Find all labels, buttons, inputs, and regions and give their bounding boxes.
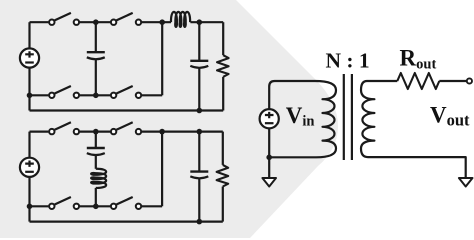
ground right: [459, 178, 473, 187]
wire source V1 top lead: [28, 22, 30, 48]
wire secondary top to Rout: [367, 80, 397, 82]
wire middle vertical (top circuit): [161, 22, 163, 95]
voltage source Vin: [260, 109, 279, 128]
node source V1 bottom: [27, 93, 33, 99]
svg-text:N : 1: N : 1: [326, 49, 370, 73]
switch S5: [49, 122, 79, 134]
node bottom rail C4: [197, 219, 203, 225]
node source V2 bottom: [27, 204, 33, 210]
voltage source V1: [20, 48, 39, 67]
wire middle vertical (bottom circuit): [161, 132, 163, 207]
wire middle rail segments (bottom circuit): [30, 205, 163, 207]
node bottom rail C2: [197, 108, 203, 114]
switch S6: [111, 122, 141, 134]
switch S4: [111, 86, 141, 98]
ground left: [262, 178, 276, 187]
wire Rout to terminal: [439, 80, 467, 82]
capacitor C1: [87, 22, 105, 95]
transformer T1 primary winding: [315, 81, 336, 157]
switch S8: [111, 197, 141, 209]
wire Vin top lead: [268, 87, 270, 109]
node middle rail C1: [93, 93, 99, 99]
wire Vin bottom lead to ground: [268, 128, 270, 178]
switch S2: [111, 13, 141, 25]
resistor Rout: [397, 73, 439, 89]
transformer T1 core: [344, 74, 352, 160]
wire bottom rail (top circuit): [30, 109, 224, 111]
wire source V2 top lead: [28, 132, 30, 158]
node middle rail L2: [93, 204, 99, 210]
node top rail C: [197, 19, 203, 25]
switch S3: [49, 86, 79, 98]
wire top rail segments (bottom circuit): [30, 131, 223, 133]
node top rail E: [159, 129, 165, 135]
voltage source V2: [20, 158, 39, 177]
switch S1: [49, 13, 79, 25]
svg-text:Rout: Rout: [400, 45, 437, 72]
node Vin bottom junction: [266, 155, 272, 161]
terminal Vout: [467, 78, 472, 83]
inductor L1: [171, 12, 190, 27]
wire source V2 bottom lead down left side: [28, 177, 30, 222]
node top rail F: [197, 129, 203, 135]
node top rail B: [159, 19, 165, 25]
wire primary bottom: [269, 156, 316, 158]
wire source V1 bottom lead down left side: [28, 68, 30, 111]
wire top rail segments (top circuit): [30, 21, 224, 23]
node top rail D: [93, 129, 99, 135]
transformer T1 secondary winding: [361, 81, 374, 157]
wire secondary bottom to ground: [368, 157, 466, 178]
svg-text:Vout: Vout: [430, 103, 470, 130]
wire bottom rail (bottom circuit): [30, 221, 223, 223]
wire middle rail segments (top circuit): [30, 94, 163, 96]
wire primary top: [269, 81, 315, 87]
wire L2 bottom lead: [95, 188, 97, 206]
capacitor C2: [190, 22, 208, 110]
capacitor C3: [87, 132, 105, 169]
capacitor C4: [190, 132, 208, 222]
background arrow: [0, 0, 338, 238]
inductor L2: [91, 169, 106, 188]
resistor R2: [217, 132, 229, 222]
node top rail A: [93, 19, 99, 25]
resistor R1: [217, 22, 229, 110]
switch S7: [49, 197, 79, 209]
